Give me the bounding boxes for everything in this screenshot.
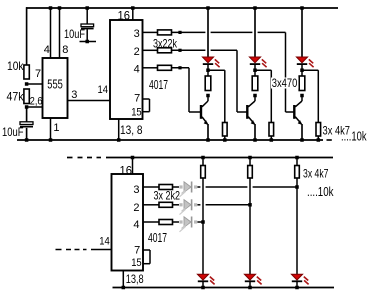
wire LED D1 to R6 470 bbox=[207, 70, 209, 76]
resistor R12 4k7 bbox=[201, 166, 206, 179]
junction R6/Q1 collector bbox=[206, 94, 210, 98]
wire bottom +V rail bbox=[106, 157, 333, 159]
wire 555 pin3 to 4017 pin14 bbox=[68, 100, 111, 102]
junction gnd/4017 pin13,8 bbox=[117, 138, 121, 142]
wire R9 to gnd bbox=[224, 136, 226, 140]
wire pin row y222 (U3) bbox=[143, 221, 159, 223]
junction column x203 bbox=[201, 220, 205, 224]
svg-text:4: 4 bbox=[44, 44, 50, 56]
wire LED D2 to R7 470 bbox=[254, 70, 256, 76]
junction R8/Q3 collector bbox=[300, 94, 304, 98]
wire LED D3 to R8 470 bbox=[301, 70, 303, 76]
junction top rail / 4017 pin16 bbox=[131, 6, 135, 10]
wire rail to R12 bbox=[202, 158, 204, 166]
wire bottom ground rail bbox=[113, 287, 335, 289]
wire R3 to Q3 base bbox=[172, 31, 206, 33]
wire Q1 base bbox=[189, 111, 201, 113]
junction LED D10/gnd bbox=[201, 286, 205, 290]
svg-text:3: 3 bbox=[134, 28, 140, 40]
LED D1 light rays bbox=[215, 59, 219, 63]
junction column x250 bbox=[248, 203, 252, 207]
wire LED D1 to R9 4k7 bbox=[208, 69, 225, 71]
resistor R4 22k bbox=[158, 48, 172, 53]
svg-text:1: 1 bbox=[53, 122, 59, 134]
wire C1 to ground rail bbox=[26, 128, 28, 140]
svg-text:15: 15 bbox=[131, 257, 142, 269]
LED D11 light rays bbox=[257, 277, 261, 281]
junction LED D11/gnd bbox=[248, 286, 252, 290]
wire rail to LED D1 bbox=[207, 8, 209, 57]
wire R12 to LED D10 bbox=[202, 178, 204, 274]
wire R5 to Q1 base bbox=[172, 67, 190, 69]
svg-text:3x 2k2: 3x 2k2 bbox=[154, 189, 181, 203]
resistor R11 4k7 bbox=[316, 123, 321, 137]
wire pin4 row bbox=[143, 67, 158, 69]
capacitor C1 10uF bbox=[20, 122, 33, 125]
wire R10 to gnd bbox=[270, 136, 272, 140]
ground stub for C2 bbox=[80, 41, 97, 43]
resistor R6 470 bbox=[205, 76, 211, 91]
svg-text:3: 3 bbox=[71, 89, 77, 101]
junction top rail / 555 pin8 bbox=[58, 6, 62, 10]
svg-text:15: 15 bbox=[131, 107, 142, 119]
svg-text:7: 7 bbox=[134, 93, 140, 105]
wire LED D12 to gnd bbox=[296, 282, 298, 288]
svg-text:4017: 4017 bbox=[148, 231, 167, 245]
svg-text:13, 8: 13, 8 bbox=[120, 123, 143, 137]
svg-text:7: 7 bbox=[134, 245, 140, 257]
LED D12 light rays bbox=[304, 277, 308, 281]
resistor R1 10k bbox=[24, 65, 29, 79]
resistor R3 22k bbox=[158, 30, 172, 35]
svg-text:8: 8 bbox=[62, 44, 68, 56]
wire rail to R1 bbox=[26, 7, 28, 65]
wire pin7 to pin15 bracket bbox=[143, 98, 150, 100]
wire to LED D8 bbox=[173, 204, 180, 206]
op-amp U1 555 timer box bbox=[43, 58, 68, 118]
wire R11 to gnd bbox=[317, 136, 319, 140]
svg-text:4: 4 bbox=[133, 219, 139, 231]
dash ground rail continuation bbox=[327, 139, 332, 141]
wire to LED D7 bbox=[173, 186, 180, 188]
resistor R9 4k7 bbox=[223, 123, 228, 137]
LED D9 grey bbox=[179, 220, 182, 223]
LED D7 grey bbox=[179, 185, 182, 188]
wire 4017 pin16 bbox=[132, 8, 134, 20]
junction Q3 emitter/gnd bbox=[300, 138, 304, 142]
wire pin row y204 (U3) bbox=[143, 204, 159, 206]
transistor Q2 npn bbox=[246, 105, 248, 119]
wire LED D10 to gnd bbox=[202, 282, 204, 288]
junction LED D2 cathode bbox=[254, 64, 256, 70]
LED D11 red bbox=[244, 274, 255, 280]
LED D12 red bbox=[291, 274, 302, 280]
wire 555 pin 8 bbox=[59, 8, 61, 58]
wire R13 to LED D11 bbox=[249, 178, 251, 274]
op-amp U2 4017 counter box bbox=[110, 20, 143, 119]
svg-text:7: 7 bbox=[35, 68, 41, 80]
junction LED D1 cathode bbox=[207, 64, 209, 70]
wire R4 to Q2 base bbox=[172, 49, 206, 51]
LED D3 red bbox=[296, 57, 307, 63]
wire LED D11 to gnd bbox=[249, 282, 251, 288]
svg-text:10uF: 10uF bbox=[64, 27, 85, 41]
LED D2 red bbox=[249, 57, 260, 63]
junction LED D12/gnd bbox=[295, 286, 299, 290]
resistor R11 2k2 bbox=[159, 220, 173, 225]
wire top +V rail bbox=[26, 7, 338, 9]
wire Q3 base bbox=[286, 111, 295, 113]
junction rail/R12 bbox=[201, 156, 205, 160]
LED D3 light rays bbox=[309, 59, 313, 63]
svg-text:2: 2 bbox=[134, 46, 140, 58]
wire LED D2 to R10 4k7 bbox=[255, 69, 271, 71]
junction top rail / C2 bbox=[85, 6, 89, 10]
junction gnd/C1 bbox=[25, 138, 29, 142]
svg-text:3x470: 3x470 bbox=[272, 76, 298, 90]
LED D2 light rays bbox=[262, 59, 266, 63]
dashed +V lead (bottom) bbox=[67, 157, 73, 159]
wire 4017 pins13,8 to ground bbox=[118, 119, 120, 140]
dashed clock lead pin14 bbox=[56, 249, 62, 251]
wire R14 to LED D12 bbox=[296, 178, 298, 274]
transistor Q3 npn bbox=[293, 105, 295, 119]
svg-text:....10k: ....10k bbox=[341, 130, 367, 144]
junction rail/R14 bbox=[295, 156, 299, 160]
svg-text:555: 555 bbox=[47, 78, 63, 92]
LED D10 red bbox=[197, 274, 208, 280]
LED D10 light rays bbox=[210, 277, 214, 281]
junction rail/pin16 (bottom) bbox=[131, 156, 135, 160]
wire pin3 row bbox=[143, 31, 158, 33]
junction after R5 bbox=[178, 66, 181, 69]
wire LED D8 to column bbox=[197, 204, 200, 206]
wire LED D3 to R11 4k7 bbox=[302, 69, 318, 71]
svg-text:14: 14 bbox=[99, 236, 110, 248]
wire LED D9 to column bbox=[197, 221, 203, 223]
resistor R10 2k2 bbox=[159, 202, 173, 207]
wire to LED D9 bbox=[173, 221, 180, 223]
wire 555 pin1 to ground bbox=[50, 118, 52, 140]
wire 4017 pin16 (bottom) bbox=[132, 158, 134, 175]
junction R7/Q2 collector bbox=[253, 94, 257, 98]
wire pin2 row bbox=[143, 49, 158, 51]
op-amp U3 4017 counter box (bottom) bbox=[112, 174, 144, 271]
junction Q2 emitter/gnd bbox=[253, 138, 257, 142]
wire pin7 to pin15 bracket (U3) bbox=[143, 249, 150, 251]
junction top rail / 555 pin4 bbox=[49, 6, 53, 10]
resistor R13 4k7 bbox=[248, 166, 253, 179]
junction R2/C1/pin2,6 bbox=[25, 105, 29, 109]
wire 555 pin 4 bbox=[50, 8, 52, 58]
junction column x297 bbox=[295, 185, 299, 189]
svg-text:10k: 10k bbox=[7, 59, 24, 73]
svg-text:13,8: 13,8 bbox=[126, 272, 144, 286]
junction C2 ground stub bbox=[85, 40, 89, 44]
junction after R3 bbox=[178, 31, 181, 34]
resistor R14 4k7 bbox=[295, 166, 300, 179]
svg-text:4: 4 bbox=[134, 64, 140, 76]
resistor R8 470 bbox=[299, 76, 305, 91]
svg-text:10uF: 10uF bbox=[2, 125, 24, 139]
label 3x470 bbox=[271, 78, 299, 89]
svg-text:3: 3 bbox=[133, 184, 139, 196]
wire U3 pins13,8 to ground bbox=[122, 271, 124, 288]
wire rail to R14 bbox=[296, 158, 298, 166]
svg-text:3x 4k7: 3x 4k7 bbox=[303, 167, 329, 181]
svg-text:2: 2 bbox=[133, 202, 139, 214]
junction rail/R13 bbox=[248, 156, 252, 160]
svg-text:2,6: 2,6 bbox=[30, 96, 43, 108]
junction top rail / LED D3 bbox=[300, 6, 304, 10]
junction LED D3 cathode bbox=[301, 64, 303, 70]
resistor R9 2k2 bbox=[159, 185, 173, 190]
wire rail to LED D2 bbox=[254, 8, 256, 57]
transistor Q1 npn bbox=[200, 105, 202, 119]
svg-text:....10k: ....10k bbox=[307, 185, 334, 199]
wire pin row y187 (U3) bbox=[143, 186, 159, 188]
resistor R7 470 bbox=[252, 76, 258, 91]
resistor R5 22k bbox=[158, 65, 172, 70]
wire Q2 base bbox=[237, 111, 247, 113]
wire top ground rail bbox=[17, 139, 323, 141]
junction top rail / LED D1 bbox=[206, 6, 210, 10]
wire to 555 pin 2,6 bbox=[27, 106, 43, 108]
svg-text:47k: 47k bbox=[7, 90, 25, 104]
LED D1 red bbox=[202, 57, 213, 63]
resistor R2 47k bbox=[24, 89, 29, 104]
wire LED D7 to column bbox=[197, 186, 200, 188]
junction Q1 emitter/gnd bbox=[206, 138, 210, 142]
wire rail to LED D3 bbox=[301, 8, 303, 57]
svg-text:14: 14 bbox=[98, 84, 109, 96]
wire rail to R13 bbox=[249, 158, 251, 166]
wire to 555 pin 7 bbox=[27, 83, 43, 85]
junction R1/R2/pin7 bbox=[25, 82, 29, 86]
wire R2 to C1 bbox=[26, 107, 28, 122]
junction top rail / LED D2 bbox=[253, 6, 257, 10]
junction after R4 bbox=[178, 49, 181, 52]
junction gnd/U3 bbox=[122, 286, 126, 290]
svg-text:4017: 4017 bbox=[149, 78, 168, 92]
resistor R10 4k7 bbox=[269, 123, 274, 137]
capacitor C2 10uF bbox=[86, 8, 88, 24]
junction gnd/555 pin1 bbox=[49, 138, 53, 142]
LED D8 grey bbox=[179, 203, 182, 206]
